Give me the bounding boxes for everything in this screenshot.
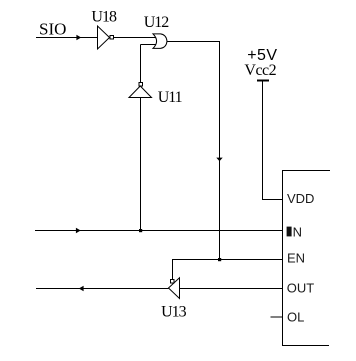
inverter U11 (129, 86, 152, 98)
tri-state buffer U13 (169, 278, 180, 299)
inverter U11 bubble (139, 83, 143, 87)
power bar symbol (257, 80, 269, 82)
wire U11 input down to IN line (140, 98, 142, 231)
inverter U18 (98, 26, 110, 49)
junction on IN line at x=140 (139, 229, 142, 232)
or-gate U12 (153, 34, 167, 49)
svg-text:VDD: VDD (287, 191, 314, 206)
svg-text:U18: U18 (91, 8, 117, 25)
wire OUT line right of U13 (180, 288, 283, 290)
wire U12 lower input (141, 44, 156, 46)
wire OUT line left of U13 (36, 288, 169, 290)
IC U-block outline (283, 171, 331, 346)
svg-text:U13: U13 (161, 304, 187, 321)
wire Vcc2 down to VDD pin (263, 81, 283, 200)
svg-text:OL: OL (287, 310, 304, 325)
wire SIO input (36, 37, 98, 39)
svg-text:U12: U12 (144, 14, 170, 31)
svg-text:OUT: OUT (287, 281, 315, 296)
tri-state buffer U13 bubble (171, 280, 175, 284)
wire EN line (173, 260, 283, 280)
arrow on vertical wire (down) (216, 158, 222, 162)
arrow on IN line (right) (76, 228, 81, 233)
svg-text:U11: U11 (158, 89, 183, 106)
pin IN label (block I) (287, 227, 292, 237)
svg-text:Vcc2: Vcc2 (244, 62, 276, 79)
svg-text:N: N (293, 224, 302, 239)
wire U11 output up to U12 (140, 45, 142, 84)
wire U18 output to U12 input (114, 37, 156, 39)
wire U12 output to EN line (167, 42, 220, 260)
inverter U18 bubble (110, 36, 114, 40)
junction on EN line at x=219 (218, 258, 221, 261)
wire IN line (35, 230, 282, 232)
arrow on OUT line (left) (79, 286, 84, 291)
svg-text:SIO: SIO (39, 20, 66, 39)
arrow on SIO wire (right) (76, 35, 81, 40)
pin OL stub (271, 316, 283, 318)
svg-text:EN: EN (287, 251, 305, 266)
